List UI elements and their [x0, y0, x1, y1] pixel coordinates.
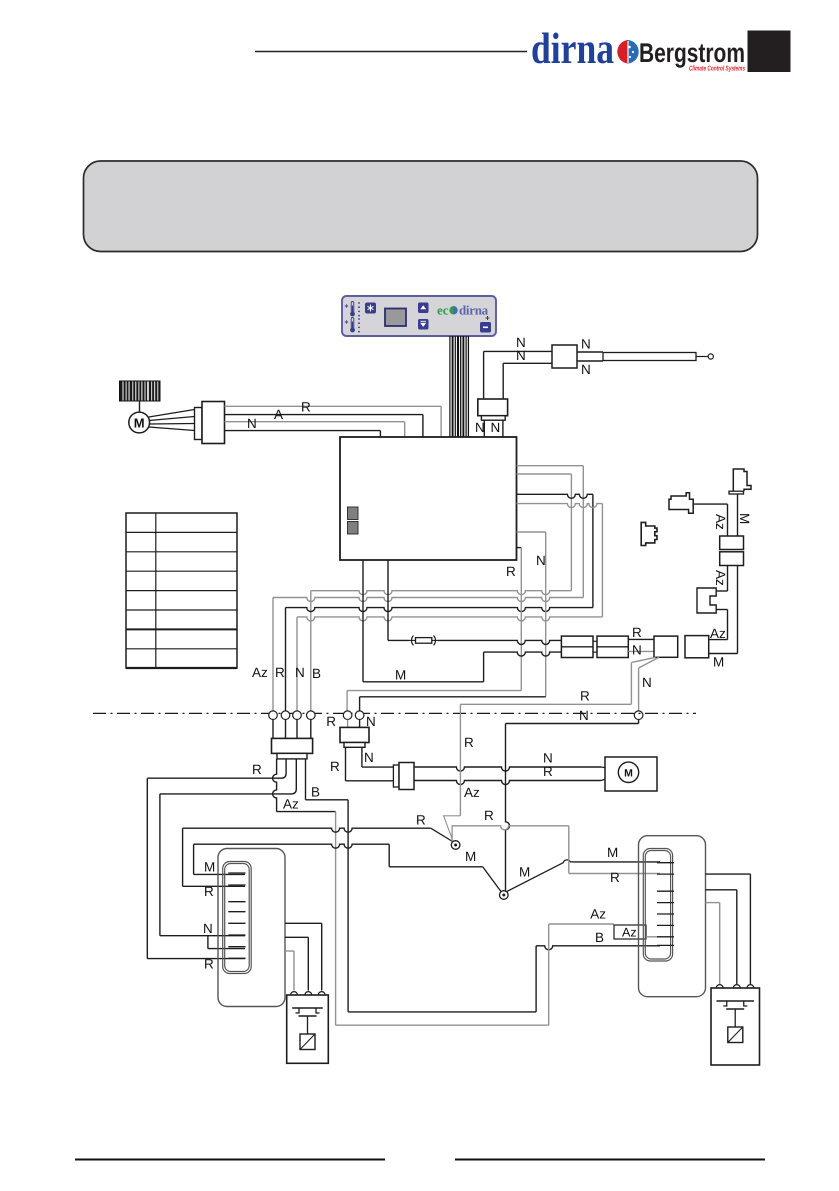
svg-text:R: R: [252, 762, 262, 777]
svg-text:M: M: [607, 845, 618, 860]
svg-text:N: N: [632, 643, 642, 658]
svg-text:dirna: dirna: [531, 24, 614, 73]
svg-text:Az: Az: [713, 514, 728, 530]
svg-text:N: N: [536, 553, 546, 568]
svg-text:A: A: [274, 407, 283, 422]
svg-text:M: M: [713, 655, 724, 670]
svg-text:R: R: [416, 813, 426, 828]
svg-text:B: B: [311, 785, 320, 800]
svg-text:Az: Az: [464, 785, 480, 800]
svg-text:N: N: [247, 416, 257, 431]
svg-text:N: N: [203, 921, 213, 936]
svg-text:N: N: [581, 362, 591, 377]
svg-text:Az: Az: [713, 570, 728, 586]
svg-text:ec: ec: [437, 303, 449, 318]
svg-text:M: M: [395, 668, 406, 683]
svg-text:R: R: [326, 714, 336, 729]
svg-text:N: N: [579, 708, 589, 723]
svg-text:R: R: [610, 870, 620, 885]
svg-text:Az: Az: [710, 626, 726, 641]
svg-text:B: B: [595, 930, 604, 945]
svg-text:M: M: [519, 865, 530, 880]
svg-text:N: N: [475, 420, 485, 435]
svg-text:M: M: [134, 416, 145, 431]
svg-text:N: N: [295, 665, 305, 680]
svg-text:R: R: [275, 665, 285, 680]
svg-text:R: R: [301, 400, 311, 415]
svg-text:Az: Az: [283, 797, 299, 812]
svg-text:R: R: [506, 564, 516, 579]
svg-text:N: N: [491, 420, 501, 435]
svg-text:Bergstrom: Bergstrom: [639, 38, 745, 68]
svg-text:M: M: [624, 768, 633, 780]
svg-text:R: R: [204, 957, 214, 972]
svg-text:R: R: [330, 759, 340, 774]
svg-text:M: M: [465, 849, 476, 864]
svg-text:R: R: [632, 625, 642, 640]
svg-text:N: N: [642, 675, 652, 690]
svg-text:R: R: [484, 808, 494, 823]
svg-text:R: R: [204, 884, 214, 899]
svg-text:N: N: [364, 750, 374, 765]
svg-text:R: R: [580, 689, 590, 704]
svg-text:N: N: [516, 348, 526, 363]
svg-text:R: R: [543, 764, 553, 779]
svg-text:Az: Az: [622, 926, 637, 940]
svg-text:N: N: [581, 337, 591, 352]
svg-text:R: R: [464, 735, 474, 750]
svg-text:Az: Az: [252, 665, 268, 680]
svg-text:M: M: [737, 513, 752, 524]
svg-text:Az: Az: [590, 907, 606, 922]
svg-text:M: M: [204, 860, 215, 875]
svg-text:Climate Control Systems: Climate Control Systems: [689, 65, 745, 73]
svg-text:B: B: [312, 666, 321, 681]
svg-text:dirna: dirna: [459, 303, 489, 318]
